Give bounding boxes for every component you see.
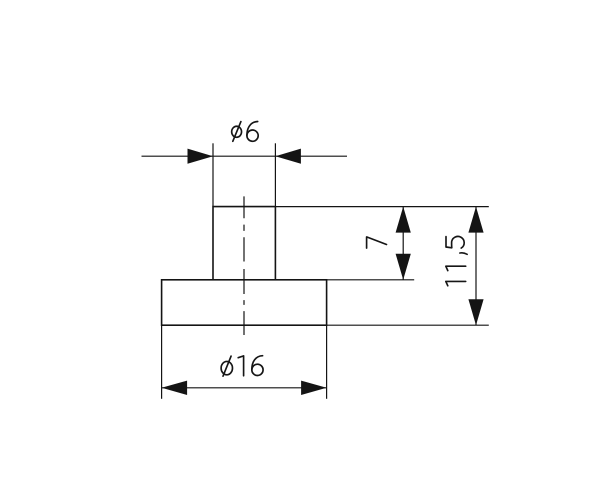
arrowhead left of Ø6 (pointing right) — [188, 149, 214, 164]
arrowhead top of 11,5 dim (pointing up) — [468, 207, 483, 233]
label Ø16 : digit 6 — [252, 356, 263, 376]
extension line left of Ø6 dimension — [212, 143, 214, 206]
label 11,5 (rotated, reads bottom to top) — [446, 236, 467, 285]
arrowhead bottom of 11,5 dim (pointing down) — [468, 299, 483, 325]
arrowhead top of 7 dim (pointing up) — [396, 207, 411, 233]
arrowhead right of Ø6 (pointing left) — [275, 149, 301, 164]
extension line left of Ø16 dimension — [161, 325, 163, 399]
arrowhead right of Ø16 (pointing right) — [301, 381, 327, 395]
extension line right of Ø6 dimension — [274, 143, 276, 206]
arrowhead left of Ø16 (pointing left) — [162, 381, 188, 395]
base outline (Ø16 disc profile) — [162, 280, 327, 325]
arrowhead bottom of 7 dim (pointing down) — [396, 254, 411, 280]
extension line right of Ø16 dimension — [326, 325, 328, 399]
label Ø6 : diameter symbol — [232, 122, 242, 142]
extension line at stem top level (right side) — [275, 206, 488, 208]
label 7 (rotated, reads bottom to top) — [367, 237, 387, 248]
extension line at base bottom level (right side) — [327, 324, 489, 326]
stem outline (Ø6 boss profile) — [213, 207, 275, 280]
dimension line 11,5 (vertical) — [475, 207, 477, 326]
dimension line Ø16 (horizontal, inside arrows) — [162, 387, 327, 389]
label Ø16 : diameter symbol — [221, 356, 232, 376]
label Ø16 : digit 1 — [238, 356, 243, 376]
extension line at base top level (right side) — [327, 279, 415, 281]
label Ø6 : digit 6 — [247, 121, 258, 141]
center line (vertical axis, long-short dashes) — [243, 196, 245, 335]
dimension line Ø6 (horizontal, outside arrows) — [142, 155, 348, 157]
dimension line 7 (vertical) — [402, 207, 404, 280]
